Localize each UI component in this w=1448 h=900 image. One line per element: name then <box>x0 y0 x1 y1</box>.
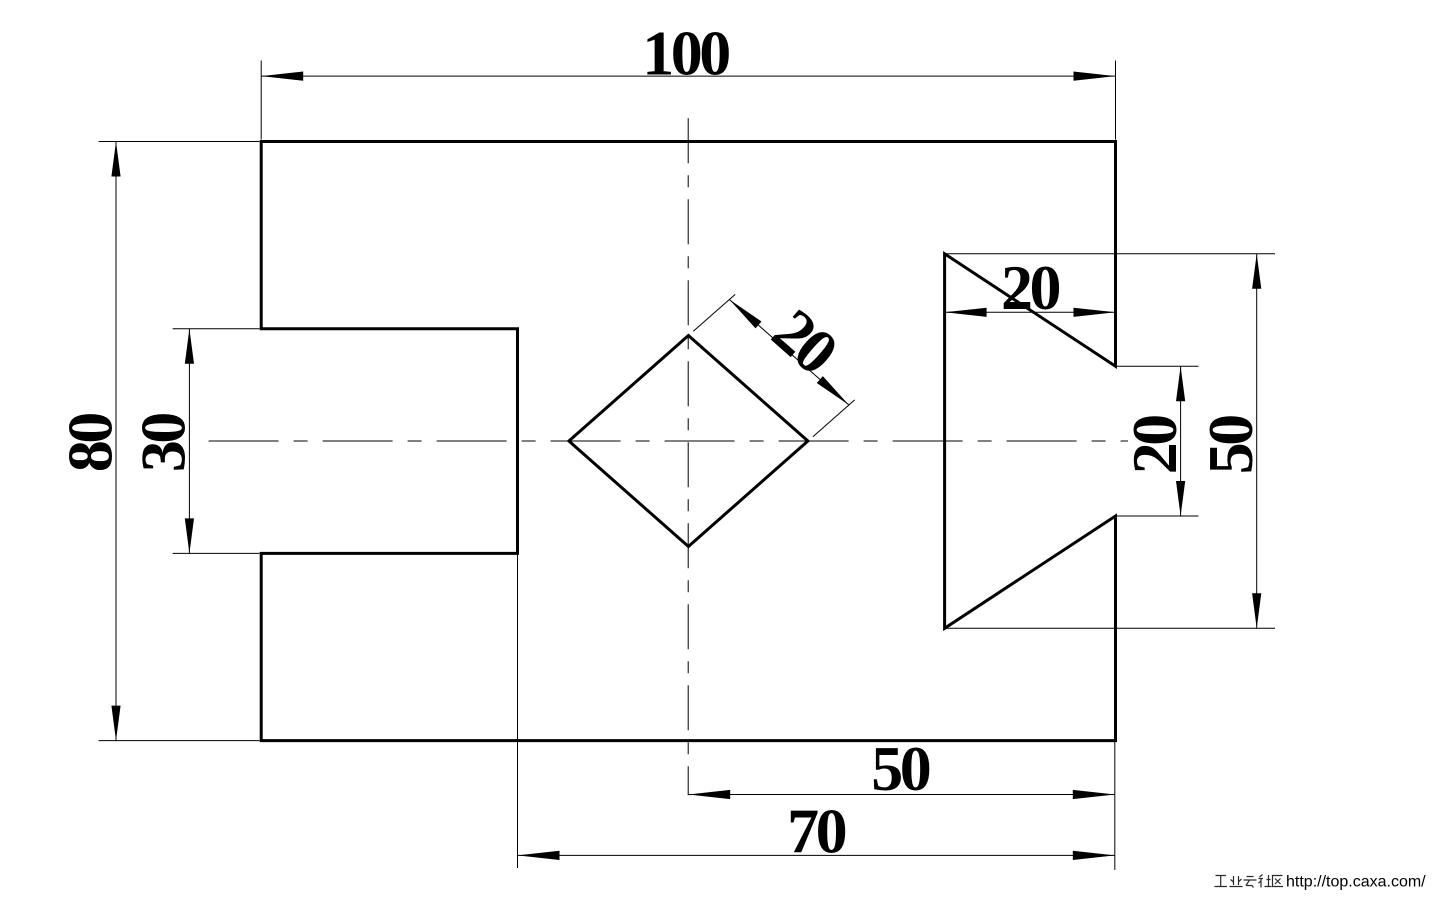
dim 50 right line <box>1256 254 1258 629</box>
watermark CJK 工 <box>1215 876 1228 887</box>
svg-text:30: 30 <box>128 414 199 473</box>
dim 20 diamond extension lines <box>693 294 854 436</box>
dim 30 extension lines <box>173 329 260 554</box>
dim 20 inner arrows <box>1176 366 1185 516</box>
dim 50 bottom line <box>688 794 1115 796</box>
watermark CJK 业 <box>1230 876 1243 887</box>
watermark CJK 社 <box>1259 875 1272 888</box>
dim 20 top-right arrows <box>945 308 1116 317</box>
svg-text:50: 50 <box>1195 416 1266 475</box>
dim 20 inner extension lines <box>1117 366 1199 516</box>
dim 70 extension line <box>517 553 519 868</box>
dim 70 arrows <box>518 851 1115 860</box>
dim 50 right arrows <box>1252 254 1261 629</box>
dim 100 arrows <box>261 72 1115 81</box>
svg-text:http://top.caxa.com/: http://top.caxa.com/ <box>1286 874 1426 891</box>
dim 50 bottom extension line <box>1114 742 1116 870</box>
dim 100 extension lines <box>261 61 1115 140</box>
dim 30 line <box>188 329 190 554</box>
svg-text:20: 20 <box>1001 252 1060 323</box>
dim 30 arrows <box>185 329 194 554</box>
watermark CJK 区 <box>1273 876 1284 887</box>
dim 80 extension lines <box>99 142 260 741</box>
dim 50 bottom arrows <box>688 790 1115 799</box>
part outline <box>261 142 1115 741</box>
centerline horizontal <box>209 440 1128 442</box>
dim 100 line <box>261 75 1115 77</box>
dim 50 right extension lines <box>945 254 1275 629</box>
dim 20 diamond line <box>729 300 849 406</box>
diamond hole <box>569 336 808 547</box>
svg-text:20: 20 <box>1119 416 1190 475</box>
dim 20 top-right line <box>945 311 1116 313</box>
dim 20 diamond arrows <box>729 300 849 406</box>
watermark CJK 云 <box>1244 877 1257 888</box>
centerline vertical <box>687 118 689 795</box>
dim 80 arrows <box>111 142 120 741</box>
svg-text:50: 50 <box>871 733 930 804</box>
dim 70 line <box>518 854 1115 856</box>
svg-text:80: 80 <box>54 414 125 473</box>
svg-text:70: 70 <box>787 796 846 867</box>
dim 80 line <box>115 142 117 741</box>
dim 20 inner line <box>1180 366 1182 516</box>
svg-text:100: 100 <box>642 18 729 89</box>
